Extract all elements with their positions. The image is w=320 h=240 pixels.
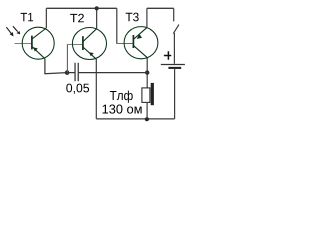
- wire: T2 base tap riser: [66, 45, 68, 73]
- transistor T2 circle: [72, 28, 106, 60]
- battery plus sign: [164, 51, 171, 60]
- wire: node rail (T1.C + T2.C + T3.B net): [46, 7, 116, 9]
- node junction dot B (T1.E / C1 / T2.B tap): [65, 70, 70, 75]
- wire: battery rail: [147, 7, 174, 9]
- phone Tlf body rect: [142, 88, 150, 103]
- T3 emitter diagonal (up): [134, 28, 147, 40]
- node junction dot D (phone / bottom rail): [145, 117, 149, 121]
- wire: capacitor right lead to node C: [78, 72, 147, 74]
- label T3: [126, 13, 139, 22]
- switch S1 fixed contact: [173, 8, 175, 21]
- switch S1 lever (open): [173, 25, 179, 34]
- wire: T1 base lead (open left): [15, 43, 32, 45]
- light arrow 2 head: [16, 31, 20, 34]
- capacitor C1 plates (0,05): [75, 63, 78, 81]
- phototransistor T1 circle: [22, 27, 54, 59]
- T2 collector diagonal: [83, 29, 97, 42]
- T1 emitter diagonal: [32, 47, 45, 59]
- wire: T3 emitter riser: [146, 8, 148, 27]
- transistor T3 ellipse: [124, 27, 158, 59]
- T1 collector diagonal: [32, 28, 46, 39]
- wire: T3 collector down to phone: [146, 58, 148, 89]
- node junction dot A (rail / T2 collector): [95, 6, 99, 10]
- wire: T1 emitter to capacitor left plate: [44, 73, 75, 74]
- battery GB negative short plate: [168, 67, 181, 69]
- label T1: [21, 13, 33, 21]
- T2 emitter arrow (PNP, toward base): [89, 52, 94, 56]
- label T2: [70, 14, 84, 23]
- wire: T3 base riser: [116, 8, 118, 43]
- T1 emitter arrow (PNP, toward base): [33, 47, 38, 51]
- phone Tlf magnet bar: [151, 83, 154, 105]
- wire: T1 collector riser: [45, 8, 47, 28]
- light arrow 1 shaft: [6, 27, 11, 33]
- T2 base bar: [82, 36, 84, 50]
- wire: T2 emitter down to bottom rail: [95, 59, 97, 119]
- node junction dot C (capacitor link / T3 collector): [145, 70, 149, 74]
- T1 base bar: [31, 36, 33, 50]
- label 005: [66, 84, 89, 94]
- wire: bottom return rail: [96, 118, 174, 120]
- wire: T3 base horizontal: [116, 43, 133, 45]
- wire: battery top lead: [173, 33, 175, 64]
- light arrow 1 head: [10, 32, 14, 36]
- wire: T1 emitter down: [44, 59, 46, 74]
- label Tlf: [110, 91, 133, 103]
- wire: T2 base horizontal: [67, 44, 83, 46]
- light arrow 2 shaft: [13, 26, 18, 31]
- T3 base bar: [132, 35, 134, 48]
- wire: battery bottom lead: [174, 69, 176, 119]
- T2 emitter diagonal: [83, 47, 96, 59]
- wire: T2 collector riser: [96, 8, 98, 28]
- label 130: [103, 104, 142, 113]
- wire: phone bottom lead: [146, 103, 148, 119]
- T3 collector diagonal (down): [134, 46, 148, 58]
- battery GB positive long plate: [161, 64, 185, 66]
- T3 emitter arrow (PNP, toward base): [137, 34, 142, 39]
